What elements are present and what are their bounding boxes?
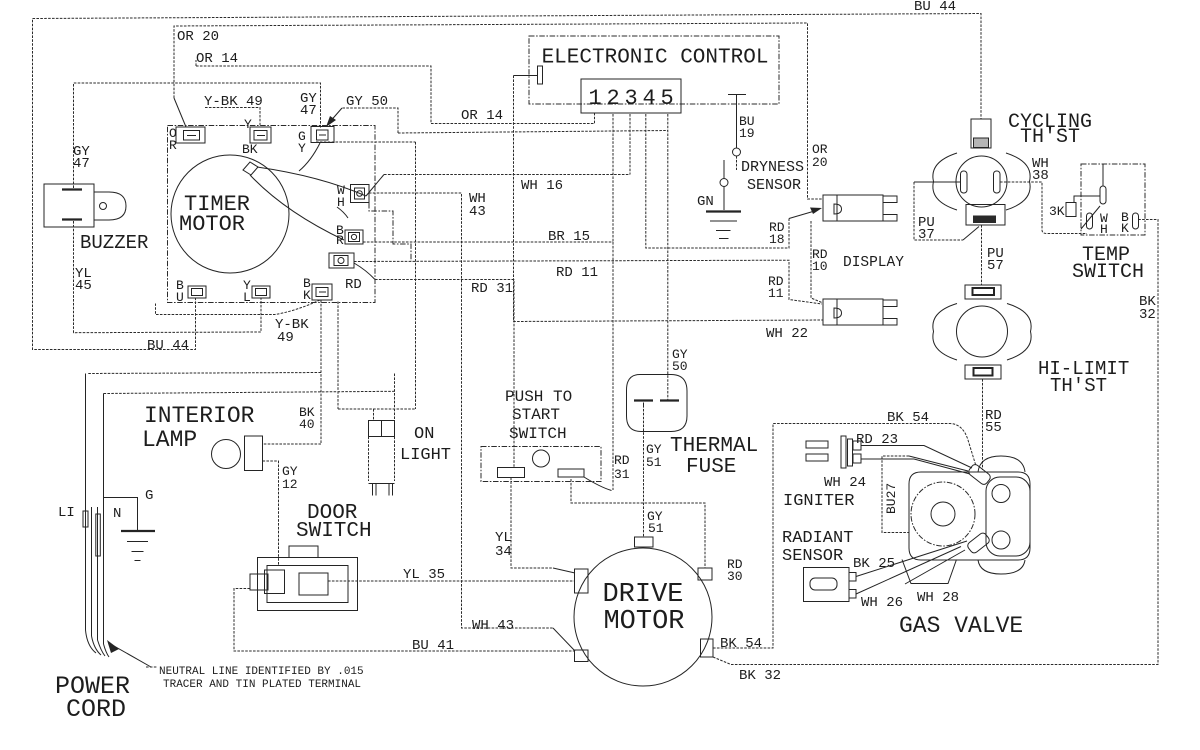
svg-text:BU27: BU27 xyxy=(884,483,899,514)
svg-text:11: 11 xyxy=(768,286,784,301)
wire WH16 (pin3 to timer W-H) xyxy=(384,114,630,175)
wire BU41 (door switch to drive motor) xyxy=(234,589,575,652)
interior lamp bulb xyxy=(212,436,263,471)
wire G ground branch xyxy=(104,498,138,531)
radiant sensor xyxy=(804,568,857,602)
svg-text:SWITCH: SWITCH xyxy=(296,520,372,543)
svg-text:K: K xyxy=(1121,221,1129,236)
timer wiper curve from G-Y xyxy=(299,143,320,171)
wire RD10 (between display connectors) xyxy=(811,221,823,303)
svg-text:ELECTRONIC CONTROL: ELECTRONIC CONTROL xyxy=(542,47,769,70)
svg-text:SWITCH: SWITCH xyxy=(1072,261,1144,284)
svg-text:NEUTRAL LINE IDENTIFIED BY .01: NEUTRAL LINE IDENTIFIED BY .015 xyxy=(159,666,364,678)
svg-text:R: R xyxy=(336,233,344,248)
svg-text:LAMP: LAMP xyxy=(142,427,197,453)
svg-text:BK: BK xyxy=(242,142,258,157)
drive motor pin lower-left xyxy=(575,650,589,662)
svg-text:LIGHT: LIGHT xyxy=(400,446,451,465)
temp switch box xyxy=(1066,164,1145,235)
wire WH38 (cycling right contact to temp switch) xyxy=(1000,182,1087,234)
electronic control probe terminal xyxy=(514,66,543,84)
wire RD30 (start switch to drive motor) xyxy=(571,479,705,568)
wire WH22 spine (probe down) xyxy=(514,76,824,322)
wire GY51 (thermal fuse to drive motor) xyxy=(643,405,645,537)
timer terminal B-U xyxy=(188,286,206,298)
electronic control sensor bar terminal xyxy=(728,95,746,149)
timer motor rotor circle xyxy=(171,155,289,273)
drive motor pin upper-right xyxy=(698,568,712,580)
svg-text:1 2 3 4 5: 1 2 3 4 5 xyxy=(588,86,672,111)
svg-text:OR 14: OR 14 xyxy=(196,51,238,67)
svg-text:DRYNESS: DRYNESS xyxy=(741,159,804,176)
drive motor pin top xyxy=(635,537,654,547)
timer terminal G-Y xyxy=(311,127,334,143)
timer terminal RD xyxy=(329,253,354,268)
wire Y-BK49 (timer B-K lower run) xyxy=(156,300,321,315)
svg-text:BK 32: BK 32 xyxy=(739,668,781,684)
wire on-light right feed xyxy=(394,374,396,421)
wire RD18 (pin4 to display) xyxy=(646,114,822,248)
wire YL35 (door switch to drive motor) xyxy=(328,580,575,582)
power cord conductors xyxy=(86,374,110,658)
wire WH28 xyxy=(905,550,965,584)
svg-text:SENSOR: SENSOR xyxy=(747,177,801,194)
gas valve body xyxy=(902,456,1030,584)
wire Y-BK49 (top label to timer Y-BK) xyxy=(205,108,260,128)
svg-text:3K: 3K xyxy=(1049,204,1065,219)
wire YL34 (start switch to drive motor) xyxy=(511,478,575,574)
wire RD11 (timer RD to display lower connector) xyxy=(354,260,822,304)
timer cam curve upper xyxy=(257,167,366,196)
svg-text:ON: ON xyxy=(414,425,434,444)
svg-text:IGNITER: IGNITER xyxy=(783,492,854,511)
wire BK25 (radiant sensor to gas valve) xyxy=(856,541,967,577)
timer terminal W-H xyxy=(351,185,370,203)
gas valve bottom terminal xyxy=(966,531,991,554)
svg-text:BK 25: BK 25 xyxy=(853,556,895,572)
svg-text:CORD: CORD xyxy=(66,695,126,724)
timer terminal B-K xyxy=(312,284,332,300)
wire OR20 xyxy=(174,23,822,199)
cycling thermostat body xyxy=(933,119,1030,225)
svg-text:10: 10 xyxy=(812,259,828,274)
svg-text:MOTOR: MOTOR xyxy=(179,212,245,237)
svg-text:40: 40 xyxy=(299,417,315,432)
svg-text:DRIVE: DRIVE xyxy=(602,580,683,610)
svg-text:RD 31: RD 31 xyxy=(471,281,513,297)
svg-text:51: 51 xyxy=(648,521,664,536)
timer cam pointer flag xyxy=(243,162,258,175)
svg-text:RD: RD xyxy=(345,277,362,293)
svg-text:47: 47 xyxy=(300,103,317,119)
wire GY12 (interior lamp to door switch) xyxy=(263,461,279,566)
dryness sensor contacts xyxy=(720,148,741,210)
svg-text:BK 54: BK 54 xyxy=(720,636,762,652)
svg-text:G: G xyxy=(145,488,153,504)
timer terminal Y-L xyxy=(252,286,270,298)
svg-text:RD: RD xyxy=(614,453,630,468)
svg-text:50: 50 xyxy=(672,359,688,374)
timer motor box xyxy=(168,126,376,303)
svg-text:R: R xyxy=(169,138,177,153)
svg-text:RADIANT: RADIANT xyxy=(782,529,853,548)
svg-text:BU 44: BU 44 xyxy=(147,338,189,354)
svg-text:WH 43: WH 43 xyxy=(472,618,514,634)
svg-text:N: N xyxy=(113,506,121,522)
svg-text:Y: Y xyxy=(244,117,252,132)
svg-text:WH 16: WH 16 xyxy=(521,178,563,194)
push to start switch xyxy=(481,447,601,482)
svg-text:45: 45 xyxy=(75,278,92,294)
drive motor circle xyxy=(574,548,712,686)
svg-text:START: START xyxy=(512,406,560,424)
wire PU57 (cycling to hi-limit) xyxy=(981,225,983,285)
svg-text:U: U xyxy=(176,290,184,305)
hi-limit thermostat body xyxy=(933,285,1031,379)
wire YL45 (buzzer to timer Y-L) xyxy=(74,221,262,333)
thermal fuse body xyxy=(627,375,688,432)
wire PU37 (cycling left contact) xyxy=(914,182,979,240)
wire BK32 (drive motor to temp switch via bottom and right) xyxy=(713,220,1158,665)
svg-text:38: 38 xyxy=(1032,168,1049,184)
wire BU44 (top border / left border to timer B-U) xyxy=(33,14,982,350)
svg-text:SENSOR: SENSOR xyxy=(782,547,843,566)
svg-text:WH 26: WH 26 xyxy=(861,595,903,611)
svg-text:55: 55 xyxy=(985,420,1002,436)
svg-text:H: H xyxy=(337,195,345,210)
svg-text:LI: LI xyxy=(58,505,75,521)
svg-text:INTERIOR: INTERIOR xyxy=(144,403,255,429)
wire N line (power cord neutral to on-light) xyxy=(104,391,395,393)
svg-text:WH 24: WH 24 xyxy=(824,475,866,491)
svg-text:WH 28: WH 28 xyxy=(917,590,959,606)
wire WH26 (radiant sensor to gas valve) xyxy=(856,547,961,595)
wire G-Y terminal to on-light riser xyxy=(316,142,416,409)
wire OR14 xyxy=(196,60,595,124)
svg-text:18: 18 xyxy=(769,232,785,247)
svg-text:WH 22: WH 22 xyxy=(766,326,808,342)
drive motor pin lower-right xyxy=(701,639,714,657)
svg-text:OR 14: OR 14 xyxy=(461,108,503,124)
wire GY47 (buzzer to timer G-Y) xyxy=(74,83,321,188)
svg-text:YL 35: YL 35 xyxy=(403,567,445,583)
wire RD55 (hi-limit to gas valve) xyxy=(982,379,984,470)
timer cam curve lower xyxy=(250,175,344,240)
svg-text:TRACER AND TIN PLATED TERMINAL: TRACER AND TIN PLATED TERMINAL xyxy=(163,679,361,691)
svg-text:20: 20 xyxy=(812,155,828,170)
svg-text:51: 51 xyxy=(646,455,662,470)
display connector upper xyxy=(823,195,897,221)
svg-text:GY 50: GY 50 xyxy=(346,94,388,110)
on light symbol xyxy=(369,421,395,496)
igniter plug fork xyxy=(806,436,861,468)
svg-text:43: 43 xyxy=(469,204,486,220)
timer small cam arc xyxy=(337,207,348,218)
timer right terminal housing outline xyxy=(369,203,411,262)
svg-text:49: 49 xyxy=(277,330,294,346)
svg-text:TH'ST: TH'ST xyxy=(1050,375,1107,397)
svg-text:BK 54: BK 54 xyxy=(887,410,929,426)
display connector lower xyxy=(823,299,897,325)
svg-text:34: 34 xyxy=(495,544,512,560)
svg-text:THERMAL: THERMAL xyxy=(670,435,758,458)
svg-text:TH'ST: TH'ST xyxy=(1020,126,1080,149)
svg-text:31: 31 xyxy=(614,467,630,482)
wire WH24 (igniter to gas valve) xyxy=(861,459,970,474)
svg-text:BU 44: BU 44 xyxy=(914,0,956,15)
wire GY50 (pin5 / timer G-Y to thermal fuse) xyxy=(326,108,668,400)
wire BR15 (pin2 to timer B-R and start switch) xyxy=(363,114,613,490)
svg-text:L: L xyxy=(243,290,251,305)
electronic control pins box 1-5 xyxy=(581,79,681,113)
svg-text:32: 32 xyxy=(1139,307,1156,323)
timer terminal B-R xyxy=(345,230,363,244)
svg-text:RD 11: RD 11 xyxy=(556,265,598,281)
electronic control box U1 xyxy=(529,36,779,104)
svg-text:PUSH TO: PUSH TO xyxy=(505,388,572,406)
timer terminal Y-BK xyxy=(250,127,271,143)
power cord LI terminal xyxy=(83,511,88,527)
svg-text:47: 47 xyxy=(73,156,90,172)
svg-text:30: 30 xyxy=(727,569,743,584)
svg-text:12: 12 xyxy=(282,477,298,492)
svg-text:H: H xyxy=(1100,222,1108,237)
svg-text:Y-BK 49: Y-BK 49 xyxy=(204,94,263,110)
wire WH43 (timer W-H to drive motor) xyxy=(369,193,553,628)
wire RD31 (timer RD to push-to-start switch) xyxy=(354,263,514,468)
power cord arrow callout xyxy=(107,640,157,667)
wire BK40 (timer B-K to interior lamp and power cord line) xyxy=(87,300,321,444)
ground symbol (power cord) xyxy=(121,531,155,561)
svg-text:57: 57 xyxy=(987,258,1004,274)
svg-text:Y: Y xyxy=(298,141,306,156)
wire on-light left feed (from timer B-K area) xyxy=(338,302,416,421)
wire start switch right bar to BR15 xyxy=(584,477,612,491)
svg-text:BR 15: BR 15 xyxy=(548,229,590,245)
timer terminal O-R xyxy=(176,127,205,143)
svg-text:BU 41: BU 41 xyxy=(412,638,454,654)
svg-text:DISPLAY: DISPLAY xyxy=(843,255,904,271)
svg-text:SWITCH: SWITCH xyxy=(509,425,567,443)
ground symbol GN xyxy=(706,212,741,239)
svg-text:RD 23: RD 23 xyxy=(856,432,898,448)
drive motor pin upper-left xyxy=(575,569,589,593)
wire RD23 (igniter to gas valve) xyxy=(861,446,972,469)
door switch xyxy=(250,546,358,611)
wire BK54 (drive motor to gas valve) xyxy=(713,424,976,649)
svg-text:GN: GN xyxy=(697,194,714,210)
svg-text:19: 19 xyxy=(739,126,755,141)
svg-text:BUZZER: BUZZER xyxy=(80,232,148,254)
svg-text:FUSE: FUSE xyxy=(686,456,736,479)
svg-text:MOTOR: MOTOR xyxy=(603,607,684,637)
power cord neutral tracer terminal xyxy=(96,514,101,556)
svg-text:GAS VALVE: GAS VALVE xyxy=(899,613,1023,639)
wire BU27 (gas valve coil loop) xyxy=(882,456,968,533)
buzzer xyxy=(44,184,126,227)
svg-text:37: 37 xyxy=(918,227,935,243)
gas valve top terminal xyxy=(967,463,992,486)
svg-text:K: K xyxy=(303,288,311,303)
svg-text:OR 20: OR 20 xyxy=(177,29,219,45)
